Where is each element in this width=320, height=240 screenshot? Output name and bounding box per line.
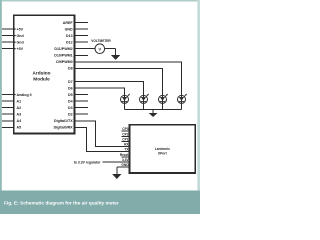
svg-text:CP1: CP1: [122, 138, 128, 142]
svg-text:D11/PWM2: D11/PWM2: [54, 47, 72, 51]
svg-text:GND: GND: [121, 163, 129, 167]
svg-text:D13: D13: [66, 34, 73, 38]
svg-text:GND: GND: [65, 27, 73, 31]
svg-text:AREF: AREF: [63, 21, 74, 25]
svg-text:A1: A1: [17, 99, 22, 103]
svg-text:A4: A4: [17, 119, 22, 123]
svg-text:D3: D3: [68, 106, 73, 110]
svg-text:Fig. E: Schematic diagram for: Fig. E: Schematic diagram for the air qu…: [4, 201, 119, 207]
svg-text:D9/PWM0: D9/PWM0: [56, 60, 72, 64]
svg-text:Module: Module: [33, 76, 50, 81]
svg-text:D10/PWM1: D10/PWM1: [54, 54, 72, 58]
svg-text:to 3.3V regulator: to 3.3V regulator: [74, 161, 101, 165]
svg-text:D6: D6: [68, 86, 73, 90]
svg-text:A3: A3: [17, 113, 22, 117]
svg-text:XPort: XPort: [158, 151, 168, 155]
svg-text:D5: D5: [68, 93, 73, 97]
svg-text:Digital1/TX: Digital1/TX: [54, 119, 73, 123]
svg-text:VOLTMETER: VOLTMETER: [91, 39, 111, 43]
svg-text:Analog 0: Analog 0: [17, 93, 32, 97]
svg-text:D2: D2: [68, 113, 73, 117]
svg-text:A5: A5: [17, 126, 22, 130]
svg-text:A2: A2: [17, 106, 22, 110]
svg-text:3.3V: 3.3V: [122, 158, 129, 162]
svg-text:Reset: Reset: [120, 153, 130, 157]
svg-text:+5V: +5V: [17, 27, 24, 31]
svg-text:V: V: [98, 46, 101, 51]
svg-text:CP2: CP2: [122, 133, 128, 137]
svg-text:Gnd: Gnd: [17, 34, 24, 38]
svg-text:CP3: CP3: [122, 127, 128, 131]
svg-text:Arduino: Arduino: [33, 70, 51, 75]
svg-text:D8: D8: [68, 67, 73, 71]
svg-text:D7: D7: [68, 80, 73, 84]
svg-text:+5V: +5V: [17, 47, 24, 51]
svg-text:D12: D12: [66, 41, 73, 45]
svg-text:Digital0/RX: Digital0/RX: [54, 126, 74, 130]
svg-text:D4: D4: [68, 99, 73, 103]
svg-text:Gnd: Gnd: [17, 41, 24, 45]
